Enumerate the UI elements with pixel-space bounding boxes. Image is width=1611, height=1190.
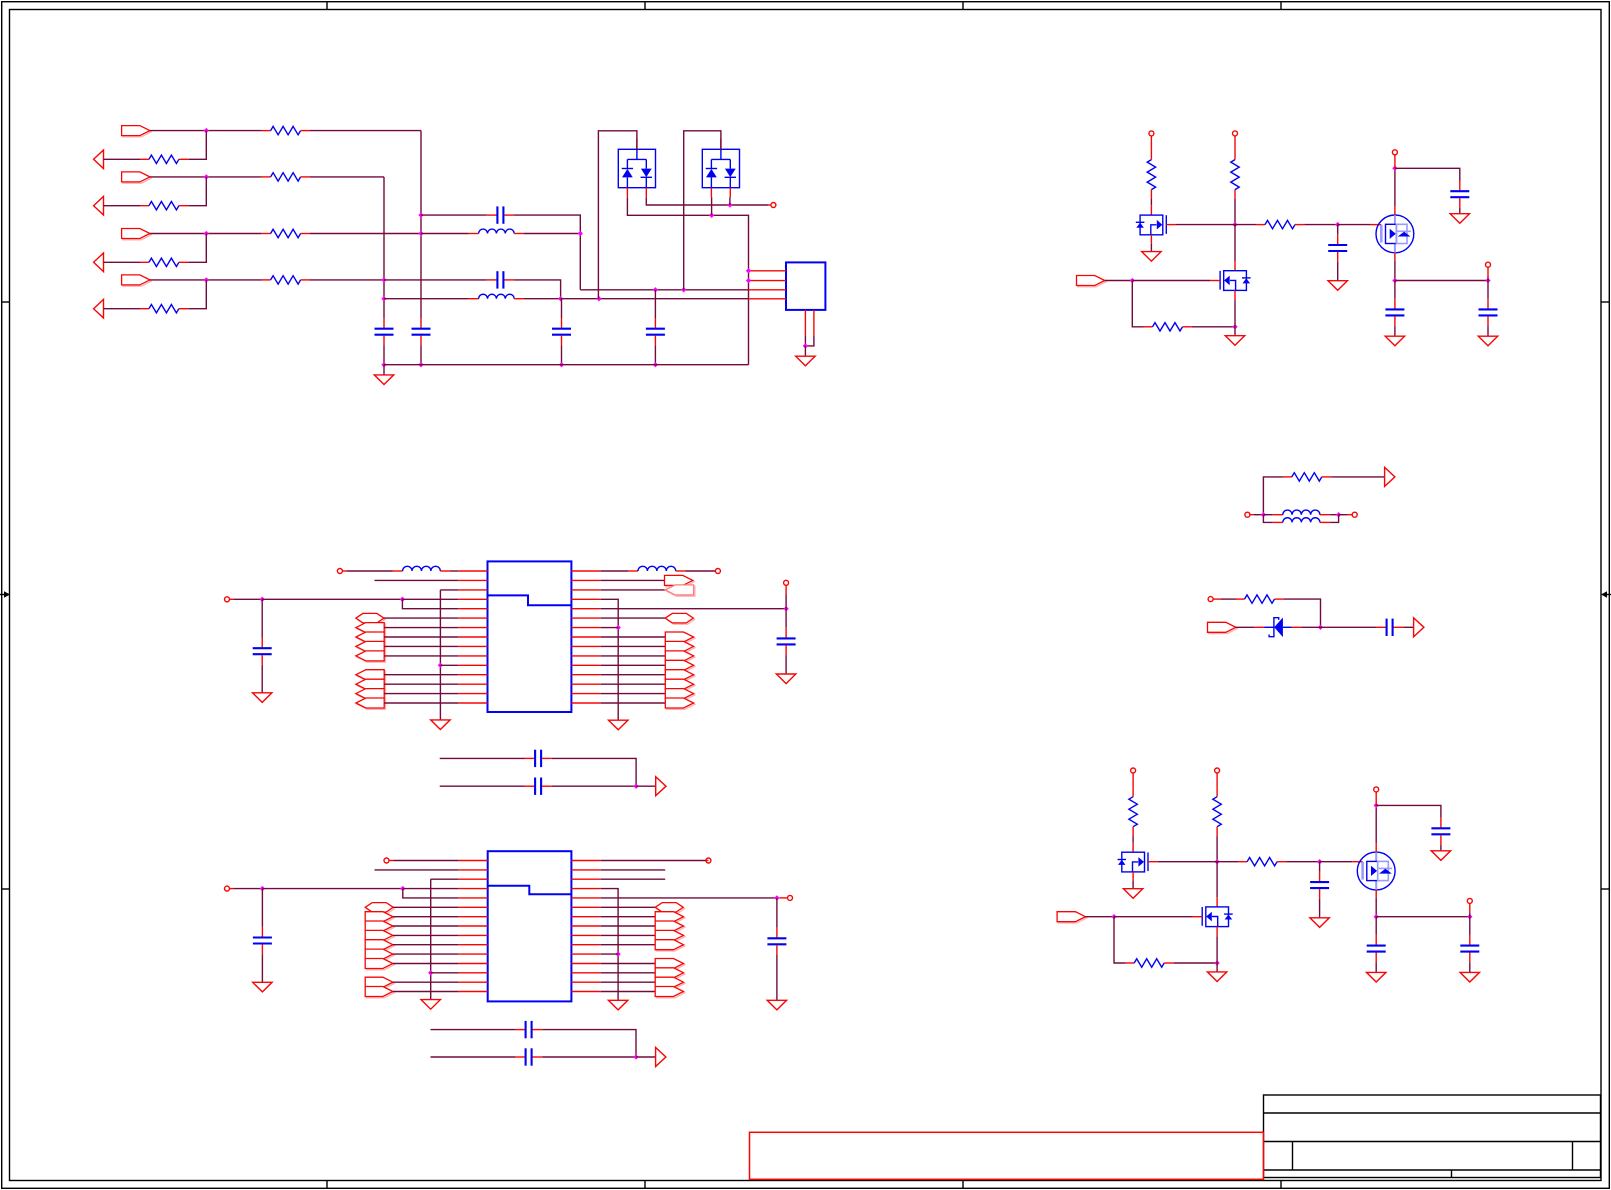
pin 4 of J1 xyxy=(749,298,787,300)
pin R8 of U2 xyxy=(571,925,600,927)
port DIO26 xyxy=(365,959,394,970)
pin R15 of U2 xyxy=(571,991,600,993)
capacitor C2B xyxy=(1431,818,1450,845)
wire xyxy=(601,693,666,695)
wire xyxy=(1375,917,1377,935)
capacitor C13 xyxy=(524,778,551,795)
capacitor C12 xyxy=(524,750,551,767)
capacitor C2F xyxy=(1460,935,1479,962)
wire xyxy=(542,1056,636,1058)
junction xyxy=(260,597,265,602)
wire xyxy=(104,205,141,207)
wire xyxy=(654,345,656,364)
port DIO16 xyxy=(665,698,695,709)
pin R11 of U1 xyxy=(571,664,600,666)
wire xyxy=(1330,514,1338,516)
wire xyxy=(601,655,666,657)
capacitor C2E xyxy=(1367,935,1386,962)
pin L1 of U2 xyxy=(458,860,487,862)
wire xyxy=(601,981,656,983)
junction xyxy=(400,886,405,891)
wire xyxy=(785,595,787,609)
ground GND2D xyxy=(1431,851,1450,861)
pin L14 of U1 xyxy=(458,693,487,695)
IC U1 xyxy=(488,561,572,712)
terminal T31 xyxy=(1352,512,1357,517)
capacitor C4 xyxy=(487,271,514,288)
pin R15 of U1 xyxy=(571,702,600,704)
port DIO13 xyxy=(665,670,695,681)
wire xyxy=(601,664,666,666)
terminal T1D xyxy=(1486,262,1491,267)
wire xyxy=(1487,277,1489,281)
inductor L31 xyxy=(1283,518,1320,523)
wire xyxy=(1216,836,1218,862)
port DIO8 xyxy=(665,613,694,624)
junction xyxy=(381,362,386,367)
transistor Q1B xyxy=(1376,215,1414,253)
wire net TX xyxy=(561,298,749,300)
pin L10 of U1 xyxy=(458,655,487,657)
wire xyxy=(403,888,459,890)
wire xyxy=(1114,916,1193,918)
port DIO30 xyxy=(655,912,685,923)
terminal T1B xyxy=(1233,131,1238,136)
wire xyxy=(1394,281,1396,299)
wire xyxy=(440,589,458,591)
wire xyxy=(1085,916,1114,918)
wire xyxy=(1150,199,1152,205)
IC U2 section divider xyxy=(488,886,572,895)
wire xyxy=(1176,224,1235,226)
wire xyxy=(188,234,206,263)
ground GND23 xyxy=(767,1000,786,1010)
wire xyxy=(552,758,636,786)
wire xyxy=(1304,224,1337,226)
ground GND1F xyxy=(1478,336,1497,346)
wire xyxy=(601,702,666,704)
pin L8 of U2 xyxy=(458,925,487,927)
junction xyxy=(1317,859,1322,864)
port DIO25 xyxy=(365,949,394,960)
ground GND10 xyxy=(253,693,272,703)
pin R1 of U1 xyxy=(571,570,600,572)
wire xyxy=(1216,862,1218,898)
wire xyxy=(1459,208,1461,214)
wire xyxy=(1284,599,1321,627)
wire stub L2 xyxy=(375,579,459,581)
wire xyxy=(1263,477,1283,515)
capacitor C5 xyxy=(552,318,571,345)
wire xyxy=(384,636,458,638)
junction xyxy=(1336,512,1341,517)
junction xyxy=(1374,803,1379,808)
wire xyxy=(431,972,459,974)
wire xyxy=(1132,280,1210,282)
port DIO21 xyxy=(365,912,394,923)
wire xyxy=(1403,626,1413,628)
terminal T22 xyxy=(706,858,711,863)
wire xyxy=(1174,962,1218,964)
wire vertical net B xyxy=(383,177,385,318)
wire xyxy=(1320,861,1353,863)
wire xyxy=(1287,861,1320,863)
wire left vertical U1 xyxy=(439,590,441,720)
resistor R2C xyxy=(1238,858,1286,866)
pin L15 of U1 xyxy=(458,702,487,704)
inductor L30 xyxy=(1283,510,1320,515)
terminal T2C xyxy=(1374,787,1379,792)
pin 6 of J1 xyxy=(813,310,815,336)
wire xyxy=(1321,626,1377,628)
resistor R12 xyxy=(262,173,310,181)
port IN2 xyxy=(122,172,152,183)
wire right vertical U1 xyxy=(601,599,619,720)
wire stub U2R3 xyxy=(601,878,666,880)
wire xyxy=(1263,514,1272,516)
transistor Q1A xyxy=(1136,215,1167,235)
pin R14 of U2 xyxy=(571,981,600,983)
port PR1 xyxy=(665,575,695,586)
wire xyxy=(785,655,787,674)
inductor L1 xyxy=(479,229,515,233)
port IN1 xyxy=(122,126,152,137)
pin 1 of J1 xyxy=(749,270,787,272)
junction xyxy=(653,362,658,367)
resistor R1B xyxy=(1231,151,1239,199)
wire xyxy=(552,785,636,787)
wire xyxy=(1487,326,1489,336)
pin R1 of U2 xyxy=(571,860,600,862)
TVS diode D1 xyxy=(618,149,655,187)
port OUT3 xyxy=(94,253,104,272)
junction xyxy=(1392,166,1397,171)
pin R7 of U2 xyxy=(571,916,600,918)
wire xyxy=(601,617,666,619)
port CPL1 xyxy=(656,777,666,796)
port DIO4 xyxy=(356,651,386,662)
wire xyxy=(393,934,459,936)
pin R2 of U2 xyxy=(571,869,600,871)
pin L13 of U2 xyxy=(458,972,487,974)
junction xyxy=(1130,278,1135,283)
pin R6 of U2 xyxy=(571,906,600,908)
ground GND2F xyxy=(1460,972,1479,982)
wire xyxy=(601,636,666,638)
port OUT4 xyxy=(94,299,104,318)
wire xyxy=(1158,861,1217,863)
wire xyxy=(601,906,656,908)
pin L14 of U2 xyxy=(458,981,487,983)
terminal T23 xyxy=(788,895,793,900)
pin L3 of U1 xyxy=(458,589,487,591)
wire xyxy=(384,298,469,300)
wire xyxy=(1394,168,1396,206)
port DIO14 xyxy=(665,679,695,690)
pin R12 of U2 xyxy=(571,963,600,965)
junction xyxy=(418,362,423,367)
pin R2 of U1 xyxy=(571,579,600,581)
wire xyxy=(1132,836,1134,842)
wire cap row 4 xyxy=(431,1056,516,1058)
wire xyxy=(601,972,656,974)
pin L10 of U2 xyxy=(458,944,487,946)
wire xyxy=(393,925,459,927)
wire xyxy=(1337,262,1339,281)
wire xyxy=(1254,514,1263,516)
wire xyxy=(1235,224,1256,226)
inductor L11 xyxy=(638,566,676,571)
resistor R2D xyxy=(1125,959,1173,967)
resistor R14 xyxy=(262,276,310,284)
port OUT2 xyxy=(94,196,104,215)
wire source branch xyxy=(1376,916,1470,918)
wire xyxy=(1375,805,1377,843)
wire step to row5 U2 xyxy=(403,889,459,898)
wire xyxy=(1132,881,1134,889)
port DIO15 xyxy=(665,689,695,700)
junction xyxy=(1485,278,1490,283)
resistor R13 xyxy=(262,229,310,237)
wire xyxy=(776,898,778,928)
wire xyxy=(805,336,814,346)
wire xyxy=(150,176,262,178)
wire xyxy=(188,131,206,160)
ground GND1E xyxy=(1385,336,1404,346)
junction xyxy=(1261,512,1266,517)
pin R8 of U1 xyxy=(571,636,600,638)
wire cap row 3 xyxy=(431,1029,516,1031)
capacitor C1F xyxy=(1479,299,1498,326)
wire xyxy=(636,785,656,787)
wire xyxy=(384,674,458,676)
wire xyxy=(1319,899,1321,918)
port DIO2 xyxy=(356,632,386,643)
capacitor C1A xyxy=(1328,234,1347,261)
wire TVS2 top loop xyxy=(684,131,721,290)
wire xyxy=(685,570,715,572)
wire xyxy=(1114,917,1125,963)
wire TVS anode to ground xyxy=(627,197,748,365)
wire xyxy=(421,233,469,235)
terminal T2B xyxy=(1215,768,1220,773)
ground GND1B xyxy=(1328,281,1347,291)
connector J1 xyxy=(786,262,825,310)
wire xyxy=(1105,280,1133,282)
pin L2 of U1 xyxy=(458,579,487,581)
resistor R1D xyxy=(1144,323,1192,331)
transistor Q2A xyxy=(1118,852,1149,872)
ground GND21 xyxy=(421,1000,440,1010)
resistor R2A xyxy=(1129,788,1137,836)
junction xyxy=(204,128,209,133)
ground GND2 xyxy=(796,356,815,366)
wire drain branch xyxy=(1376,805,1441,817)
port CTRL2 xyxy=(1057,912,1087,923)
capacitor C30 xyxy=(1376,619,1403,636)
IC U1 section divider xyxy=(488,595,572,605)
wire xyxy=(785,609,787,628)
wire xyxy=(261,599,263,637)
wire xyxy=(1217,861,1238,863)
junction xyxy=(746,278,751,283)
pin R3 of U1 xyxy=(571,589,600,591)
pin R4 of U1 xyxy=(571,598,600,600)
wire xyxy=(234,888,263,890)
wire xyxy=(421,214,487,216)
junction xyxy=(1232,324,1237,329)
wire net RX xyxy=(580,289,748,291)
pin L7 of U2 xyxy=(458,916,487,918)
wire xyxy=(393,953,459,955)
pin 5 of J1 xyxy=(804,310,806,336)
terminal T12 xyxy=(715,569,720,574)
wire xyxy=(1469,913,1471,917)
pin L9 of U1 xyxy=(458,645,487,647)
junction xyxy=(559,362,564,367)
port DIO8 xyxy=(356,698,386,709)
port DIO37 xyxy=(655,987,685,998)
port DIO31 xyxy=(655,921,685,932)
wire stub U2L2 xyxy=(375,869,459,871)
transistor Q1C xyxy=(1220,271,1251,291)
wire xyxy=(542,1030,636,1057)
wire VDD right U2 xyxy=(601,897,777,899)
wire xyxy=(1234,300,1236,327)
wire xyxy=(1150,244,1152,252)
wire xyxy=(384,645,458,647)
wire xyxy=(261,889,263,927)
pin L7 of U1 xyxy=(458,627,487,629)
port DIO10 xyxy=(665,641,695,652)
port CTRL1 xyxy=(1077,276,1107,287)
pin L5 of U2 xyxy=(458,897,487,899)
junction xyxy=(633,784,638,789)
wire xyxy=(1394,261,1396,281)
wire xyxy=(1132,281,1143,327)
resistor R23 xyxy=(140,258,188,266)
pin R9 of U2 xyxy=(571,934,600,936)
wire xyxy=(383,345,385,364)
pin L5 of U1 xyxy=(458,608,487,610)
junction xyxy=(783,606,788,611)
terminal T21 xyxy=(225,886,230,891)
wire xyxy=(261,954,263,982)
resistor R11 xyxy=(262,126,310,134)
ground GND2A xyxy=(1123,889,1142,899)
wire xyxy=(1469,917,1471,935)
ground GND1 xyxy=(374,375,393,385)
wire xyxy=(393,963,459,965)
capacitor C22 xyxy=(515,1021,542,1038)
pin L12 of U2 xyxy=(458,963,487,965)
wire xyxy=(601,589,666,591)
capacitor C10 xyxy=(253,638,272,665)
resistor R31 xyxy=(1236,595,1284,603)
port DIO11 xyxy=(665,651,695,662)
wire L31 left xyxy=(1263,515,1272,523)
wire xyxy=(601,579,665,581)
pin 2 of J1 xyxy=(749,280,787,282)
wire xyxy=(636,1056,656,1058)
terminal T10 xyxy=(337,569,342,574)
wire xyxy=(1339,514,1347,516)
wire xyxy=(310,279,384,281)
pin L6 of U1 xyxy=(458,617,487,619)
wire drain branch xyxy=(1395,168,1460,180)
terminal TP1 xyxy=(771,203,776,208)
junction xyxy=(727,202,732,207)
pin L4 of U1 xyxy=(458,598,487,600)
port DIO28 xyxy=(655,903,684,914)
port OUTA xyxy=(1385,467,1395,486)
wire xyxy=(711,197,713,215)
pin L11 of U2 xyxy=(458,953,487,955)
pin R5 of U1 xyxy=(571,608,600,610)
wire xyxy=(601,963,656,965)
ground GND2E xyxy=(1367,972,1386,982)
junction xyxy=(1467,914,1472,919)
pin R7 of U1 xyxy=(571,627,600,629)
capacitor C2A xyxy=(1310,871,1329,898)
wire stub U2R2 xyxy=(601,869,666,871)
junction xyxy=(1392,278,1397,283)
wire vertical net A xyxy=(420,131,422,318)
port DIO35 xyxy=(655,968,685,979)
junction xyxy=(746,268,751,273)
ground GND12 xyxy=(609,720,628,730)
wire xyxy=(1375,962,1377,972)
inductor L2 xyxy=(479,294,515,298)
wire xyxy=(1375,898,1377,917)
wire xyxy=(561,345,563,364)
wire xyxy=(601,627,619,629)
port DIO23 xyxy=(365,930,394,941)
pin R14 of U1 xyxy=(571,693,600,695)
port DIO7 xyxy=(356,689,386,700)
junction xyxy=(615,951,620,956)
pin L15 of U2 xyxy=(458,991,487,993)
junction xyxy=(1232,222,1237,227)
port DIO12 xyxy=(665,660,695,671)
wire source branch xyxy=(1395,280,1488,282)
wire xyxy=(384,693,458,695)
pin L4 of U2 xyxy=(458,888,487,890)
port DIO27 xyxy=(365,977,394,988)
junction xyxy=(596,296,601,301)
wire xyxy=(1236,626,1255,628)
port DIO6 xyxy=(356,679,386,690)
wire xyxy=(384,655,458,657)
capacitor C20 xyxy=(253,927,272,954)
wire xyxy=(384,702,458,704)
port DIO32 xyxy=(655,930,685,941)
wire xyxy=(1216,936,1218,963)
wire left vertical U2 xyxy=(430,879,432,999)
port DIO22 xyxy=(365,921,394,932)
wire xyxy=(1234,225,1236,262)
wire xyxy=(514,280,561,299)
wire TVS1 top loop xyxy=(598,131,637,299)
junction xyxy=(616,625,621,630)
junction xyxy=(1318,625,1323,630)
pin R9 of U1 xyxy=(571,645,600,647)
junction xyxy=(400,597,405,602)
port IN4 xyxy=(122,275,152,286)
wire xyxy=(384,683,458,685)
wire xyxy=(804,346,806,356)
pin R13 of U1 xyxy=(571,683,600,685)
